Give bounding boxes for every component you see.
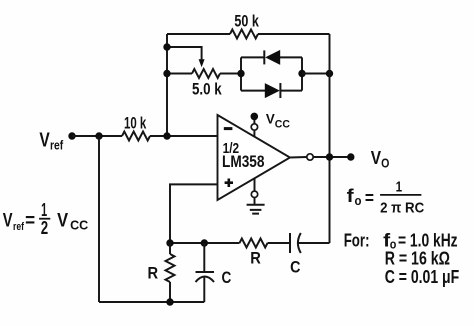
wire diode box to right rail (302, 73, 330, 75)
svg-text:= 1.0 kHz: = 1.0 kHz (398, 230, 458, 250)
wire pot left lead (167, 73, 192, 75)
resistor R series (240, 239, 268, 248)
svg-text:10 k: 10 k (124, 113, 147, 132)
wire diode top branch (241, 56, 302, 58)
svg-text:For:: For: (344, 230, 370, 250)
wire diode bottom branch (241, 90, 302, 92)
wire diode box right side (301, 57, 303, 90)
node diode box right (298, 70, 305, 77)
wire pot right lead (220, 73, 241, 75)
svg-text:1: 1 (396, 178, 403, 195)
node shunt R top (166, 239, 173, 246)
svg-text:R: R (250, 248, 261, 267)
op-amp plus sign (225, 179, 233, 188)
svg-text:V: V (57, 211, 68, 232)
wire ground pin (254, 178, 256, 205)
svg-text:1: 1 (41, 200, 47, 220)
svg-text:V: V (371, 148, 381, 168)
wire RC row (170, 242, 330, 244)
svg-text:5.0 k: 5.0 k (192, 79, 222, 98)
wiper arrowhead (199, 59, 205, 67)
svg-text:V: V (39, 129, 50, 151)
svg-text:=: = (365, 188, 374, 208)
potentiometer 5.0 k (192, 69, 220, 78)
svg-text:ref: ref (50, 138, 64, 153)
wire output (290, 156, 350, 159)
diode D2 (bottom, cathode right) (265, 83, 280, 98)
svg-text:V: V (266, 112, 275, 127)
node bottom junction (166, 298, 173, 305)
wire Vref input (72, 135, 122, 137)
terminal Vref (68, 132, 75, 139)
resistor 50 k (230, 30, 258, 39)
resistor 10 k (122, 132, 150, 141)
op-amp U1 1/2 LM358 (218, 115, 291, 200)
wire bottom rail (99, 301, 204, 303)
resistor R shunt (166, 254, 175, 282)
svg-text:=: = (25, 211, 35, 232)
svg-text:o: o (355, 193, 362, 208)
svg-text:CC: CC (70, 218, 88, 232)
capacitor C shunt (196, 271, 215, 273)
wire shunt R leads (169, 243, 171, 302)
node Vref branch junction (95, 132, 102, 139)
pin Vcc open circle (251, 124, 257, 130)
svg-text:CC: CC (275, 119, 290, 131)
node diode box left (237, 70, 244, 77)
ground (247, 205, 265, 214)
svg-text:2 π RC: 2 π RC (380, 200, 424, 217)
wire right feedback rail (329, 34, 331, 243)
svg-text:R = 16 kΩ: R = 16 kΩ (385, 249, 450, 269)
node output feedback junction (326, 153, 333, 160)
node right rail top junction (326, 70, 333, 77)
svg-text:C: C (222, 268, 232, 287)
wire top feedback horizontal (167, 33, 330, 35)
svg-text:C: C (290, 257, 300, 276)
wire potentiometer wiper arm (167, 47, 202, 60)
wire shunt C leads (203, 243, 205, 302)
svg-text:ref: ref (13, 221, 24, 233)
svg-text:C = 0.01 μF: C = 0.01 μF (385, 267, 460, 287)
svg-text:V: V (3, 211, 13, 232)
svg-text:50 k: 50 k (234, 12, 259, 31)
node wiper junction (163, 43, 170, 50)
node shunt C top (201, 239, 208, 246)
wire 10k to inverting input (150, 135, 218, 137)
wire noninverting input (170, 184, 218, 243)
wire Vref down rail (98, 136, 100, 302)
op-amp minus sign (224, 127, 233, 130)
diode D1 (top, cathode left) (263, 50, 265, 64)
pin ground open circle (251, 191, 257, 197)
svg-text:O: O (381, 156, 389, 171)
node inverting input junction (163, 132, 170, 139)
wire left feedback vertical (166, 34, 168, 136)
capacitor C series (289, 233, 291, 253)
output open circle (307, 154, 313, 160)
wire diode box left side (240, 57, 242, 90)
wire Vcc pin (253, 117, 255, 137)
svg-text:2: 2 (41, 218, 48, 238)
svg-text:R: R (148, 264, 159, 283)
terminal Vcc dot (251, 113, 259, 121)
svg-text:LM358: LM358 (222, 153, 265, 171)
node pot left junction (163, 70, 170, 77)
terminal Vo (347, 153, 354, 160)
